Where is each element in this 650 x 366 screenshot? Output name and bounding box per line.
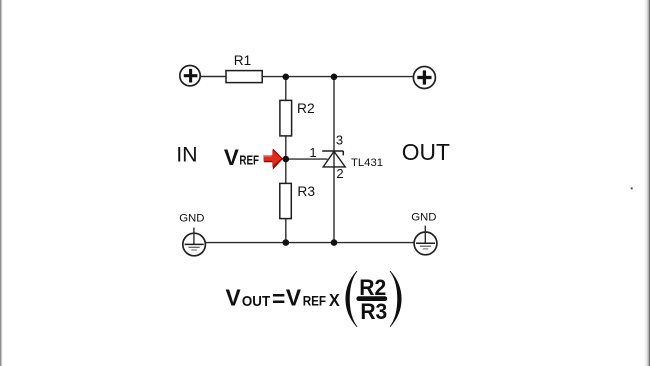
svg-text:R3: R3 <box>297 184 315 199</box>
resistor R2 <box>280 100 292 135</box>
svg-text:REF: REF <box>239 154 259 167</box>
label R3 <box>297 184 315 199</box>
svg-text:3: 3 <box>336 133 343 148</box>
ground symbol left <box>183 228 206 256</box>
label R1 <box>234 53 251 68</box>
left edge artifact line <box>0 0 2 366</box>
svg-text:R2: R2 <box>297 101 315 116</box>
svg-text:X: X <box>329 290 340 310</box>
node VREF junction <box>283 156 290 163</box>
svg-text:R1: R1 <box>234 53 251 68</box>
label GND right <box>411 211 436 223</box>
svg-text:1: 1 <box>309 145 316 160</box>
pin 1 label <box>309 145 316 160</box>
formula numerator R2 <box>359 274 386 300</box>
speck artifact <box>631 187 633 189</box>
label OUT <box>402 139 450 165</box>
svg-text:GND: GND <box>411 211 436 223</box>
red arrow VREF pointer <box>264 148 284 170</box>
wire R2 branch vertical <box>285 77 287 243</box>
svg-text:R3: R3 <box>360 299 387 325</box>
formula VOUT = VREF x (R2/R3) <box>226 285 341 312</box>
resistor R3 <box>280 183 292 218</box>
label TL431 <box>351 157 383 169</box>
ground symbol right <box>414 226 437 255</box>
node bottom-left junction <box>283 239 290 246</box>
svg-text:=: = <box>272 285 285 311</box>
svg-text:V: V <box>224 145 239 170</box>
op-amp U1 TL431 shunt regulator symbol <box>322 151 345 167</box>
svg-text:V: V <box>286 285 302 311</box>
formula closing parenthesis <box>390 271 401 326</box>
node top-left junction <box>283 74 290 81</box>
wire top rail left <box>201 76 227 78</box>
right edge artifact line <box>644 0 650 366</box>
formula fraction bar <box>356 296 387 301</box>
pin 3 label <box>336 133 343 148</box>
resistor R1 <box>226 71 262 83</box>
svg-text:OUT: OUT <box>242 293 270 310</box>
wire TL431 cathode-anode vertical <box>333 77 335 243</box>
wire top rail right <box>262 76 413 78</box>
terminal + IN <box>180 66 200 86</box>
label VREF <box>224 145 259 170</box>
svg-text:IN: IN <box>176 142 197 166</box>
pin 2 label <box>336 166 343 181</box>
svg-text:REF: REF <box>303 293 326 309</box>
svg-text:GND: GND <box>179 213 204 225</box>
node top-right junction <box>331 74 338 81</box>
svg-text:TL431: TL431 <box>351 157 383 169</box>
label IN <box>176 142 197 166</box>
wire VREF reference pin <box>286 158 328 160</box>
svg-text:V: V <box>226 285 242 311</box>
node bottom-right junction <box>331 239 338 246</box>
svg-text:R2: R2 <box>359 274 386 300</box>
svg-text:2: 2 <box>336 166 343 181</box>
label GND left <box>179 213 204 225</box>
formula denominator R3 <box>360 299 387 325</box>
formula opening parenthesis <box>346 271 357 326</box>
label R2 <box>297 101 315 116</box>
terminal + OUT <box>413 67 435 89</box>
wire bottom rail <box>205 242 414 244</box>
svg-text:OUT: OUT <box>402 139 450 165</box>
